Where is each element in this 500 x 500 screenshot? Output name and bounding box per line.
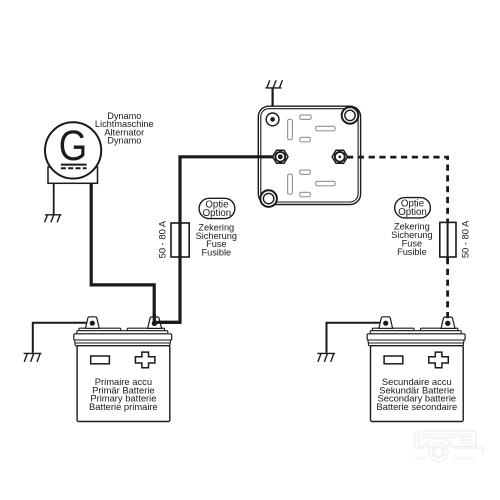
wire generator left lead to ground: [53, 183, 55, 215]
svg-text:50 - 80 A: 50 - 80 A: [460, 220, 471, 258]
battery B1 minus symbol: [91, 356, 110, 364]
relay slot pattern: [288, 115, 336, 197]
watermark trailer logo: [414, 431, 488, 462]
battery B1 cell bar right: [127, 328, 164, 331]
label Dynamo multilingual: [95, 111, 154, 146]
battery B2 positive bolt overlay: [445, 321, 450, 326]
svg-text:Option: Option: [398, 207, 427, 218]
battery B1 top rim step2: [74, 334, 172, 340]
relay mounting hole bottom-left: [260, 190, 277, 207]
battery B1 top rim step1: [77, 331, 168, 334]
svg-text:Dynamo: Dynamo: [107, 136, 141, 146]
wire relay input from fuse F1: [155, 157, 273, 322]
battery B1 positive post: [148, 317, 162, 328]
battery B1 body: [77, 346, 170, 422]
relay stud terminal 87 right: [332, 150, 347, 163]
wire battery B1 negative to ground: [33, 323, 92, 353]
svg-text:50 - 80 A: 50 - 80 A: [156, 220, 167, 258]
wire generator B+ to battery positive: [91, 183, 154, 321]
battery B2 cell bar right: [421, 328, 458, 331]
wire battery B2 negative to ground: [327, 323, 386, 353]
fuse F2: [440, 222, 456, 257]
battery B2 plus symbol: [429, 352, 449, 368]
battery B1 top rim step4: [75, 343, 170, 346]
battery B2 top rim step4: [368, 343, 463, 346]
wire overlay battery B1 positive joint: [154, 314, 181, 323]
svg-text:Batterie primaire: Batterie primaire: [89, 401, 158, 412]
relay mounting hole top-right: [342, 107, 359, 124]
label battery B1: [89, 376, 158, 412]
svg-text:Option: Option: [203, 208, 232, 219]
battery B2 top rim step3: [368, 340, 464, 343]
ground battery B2: [317, 353, 335, 362]
battery B1 primary: [24, 317, 172, 422]
svg-text:Fusible: Fusible: [201, 248, 231, 258]
relay stud terminal 30 left: [273, 150, 288, 163]
generator G1 circle: [45, 122, 101, 178]
relay K1 outer case: [258, 106, 360, 204]
battery B1 cell bar left: [79, 328, 121, 331]
label fuse right multilingual: [391, 222, 432, 257]
ground above relay: [265, 80, 282, 88]
label battery B2: [376, 376, 457, 412]
option balloon left: [199, 198, 235, 218]
battery B2 body: [371, 346, 464, 422]
wire dashed through fuse F2: [447, 221, 449, 258]
battery B1 negative post: [86, 317, 100, 329]
svg-text:Batterie secondaire: Batterie secondaire: [376, 401, 457, 412]
battery B2 minus symbol: [384, 356, 403, 364]
battery B2 cell bar left: [372, 328, 414, 331]
relay terminal 86 top-left: [266, 113, 279, 126]
svg-text:G: G: [59, 122, 87, 169]
DC symbol dashed line: [61, 167, 87, 169]
wire dashed relay output to battery B2: [347, 157, 448, 258]
DC symbol solid line: [61, 164, 87, 166]
battery B1 positive bolt overlay: [152, 321, 157, 326]
battery B2 positive bolt: [445, 321, 450, 326]
battery B2 negative bolt: [383, 321, 388, 326]
ground generator: [45, 215, 62, 223]
battery B2 positive post: [441, 317, 455, 328]
relay K1 inner case line: [261, 109, 358, 202]
battery B1 positive bolt: [152, 321, 157, 326]
battery B1 negative bolt: [90, 321, 95, 326]
battery B2 secondary: [317, 317, 465, 422]
generator G base plate: [48, 167, 98, 183]
battery B1 top rim step3: [75, 340, 171, 343]
battery B1 plus symbol: [135, 352, 155, 368]
option balloon right: [395, 198, 431, 218]
wire dashed lower segment to battery B2 positive: [446, 258, 449, 320]
label fuse left multilingual: [196, 222, 237, 257]
battery B2 negative post: [379, 317, 393, 329]
battery B2 top rim step1: [370, 331, 461, 334]
svg-text:Fusible: Fusible: [397, 247, 427, 257]
fuse F1: [171, 223, 189, 257]
ground battery B1: [24, 353, 42, 362]
wire relay coil to ground: [272, 88, 274, 117]
battery B2 top rim step2: [367, 334, 465, 340]
